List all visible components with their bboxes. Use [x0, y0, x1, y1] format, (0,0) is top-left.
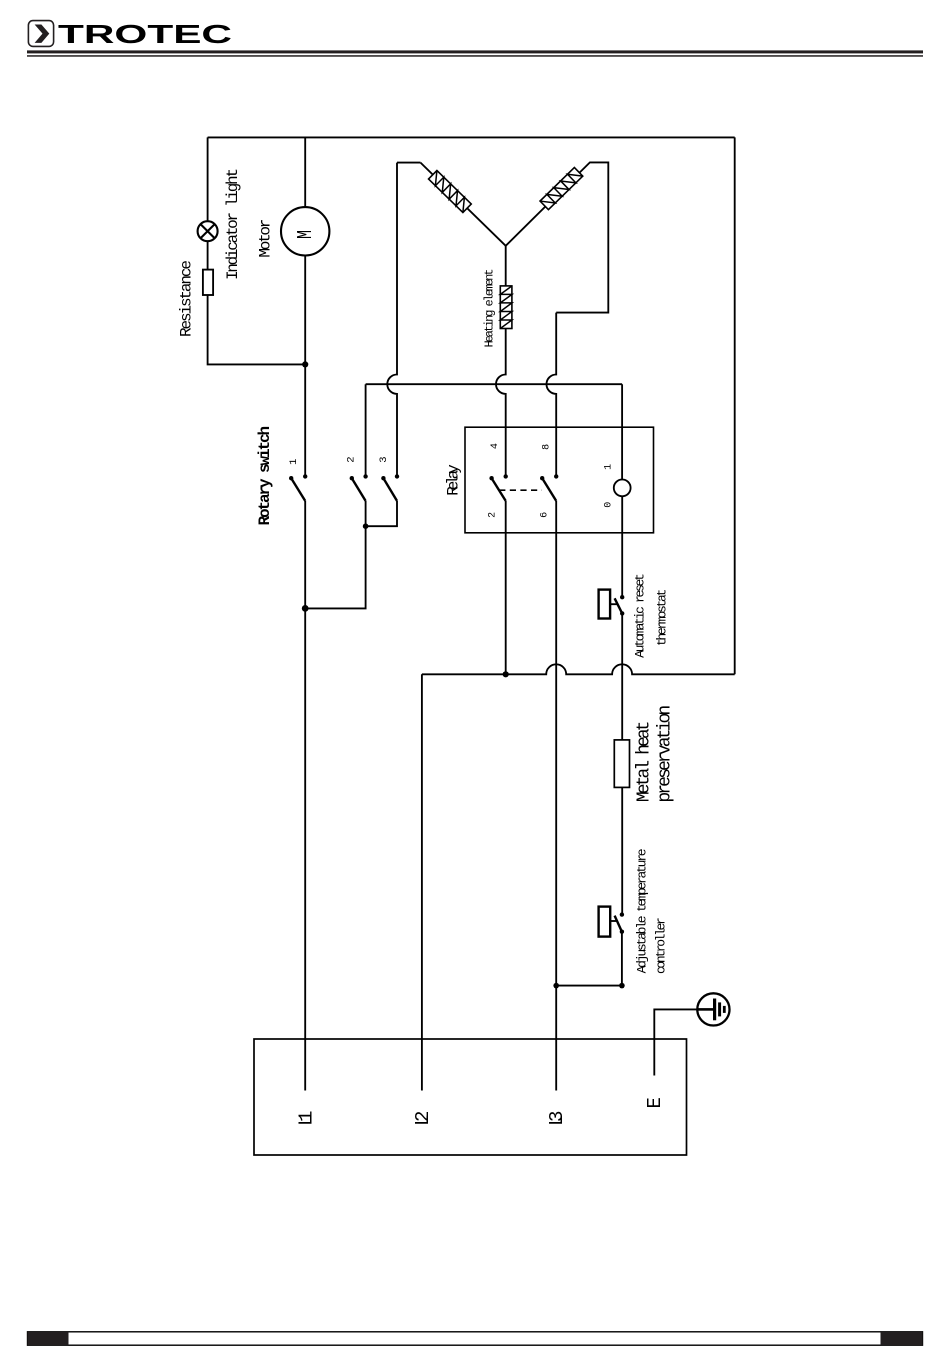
node: L1 junction [302, 605, 309, 612]
wire: relay contact B down to L3 [555, 501, 557, 1091]
rotary switch pole 1 blade [291, 478, 305, 501]
wire: bottom rail with hops over x=622 and x=556 [422, 664, 735, 674]
svg-text:L2: L2 [412, 1111, 434, 1127]
wire: switch2 blade to bottom link [365, 501, 367, 526]
svg-text:E: E [644, 1097, 666, 1108]
wire: lamp to resistor [207, 241, 209, 269]
svg-text:2: 2 [346, 456, 358, 462]
node: switch3 top contact [395, 474, 399, 478]
earth symbol bars [698, 999, 724, 1021]
node: thermostat top contact [620, 595, 624, 599]
svg-text:M: M [295, 230, 318, 239]
wire: right rail [734, 137, 736, 674]
relay contact A blade [492, 478, 506, 501]
svg-text:Metal heat: Metal heat [635, 721, 655, 803]
heating element middle coil [500, 286, 512, 329]
svg-text:controller: controller [654, 917, 669, 974]
wire: right heater drop with hop at y=384 [547, 313, 557, 477]
wire: switch2/3 bottom link [366, 501, 397, 526]
svg-text:Automatic reset: Automatic reset [632, 573, 647, 658]
heating element right coil [540, 168, 583, 210]
svg-text:L3: L3 [546, 1111, 568, 1127]
indicator lamp [198, 221, 218, 241]
rotary switch pole 3 blade [383, 478, 397, 501]
node: relay B top contact [554, 474, 558, 478]
wire: switch1 down to L1 [304, 501, 306, 1091]
svg-text:Resistance: Resistance [178, 260, 196, 337]
footer bar [28, 1332, 923, 1345]
adjustable temperature controller arm [610, 920, 617, 922]
node: relay A left contact [489, 476, 493, 480]
automatic reset thermostat body [599, 590, 611, 619]
node: relay A top contact [504, 474, 508, 478]
wire: hop-line left end down to switch 2 [365, 384, 367, 476]
adjustable temperature controller blade [615, 916, 622, 932]
svg-text:Heating element: Heating element [482, 269, 496, 348]
wire: left heater diagonal [421, 163, 506, 246]
svg-text:TROTEC: TROTEC [58, 21, 232, 49]
svg-text:Adjustable temperature: Adjustable temperature [634, 848, 649, 973]
wire: controller down to L3 node [556, 932, 622, 986]
motor U1 circle [281, 207, 329, 255]
svg-text:4: 4 [490, 443, 501, 449]
node: switch2/3 junction [363, 523, 369, 529]
wire: middle heater drop with hop at y=384 [496, 246, 506, 477]
heating element left coil [429, 170, 472, 212]
svg-text:Rotary switch: Rotary switch [256, 426, 274, 526]
resistor Resistance [203, 270, 213, 295]
svg-text:2: 2 [488, 512, 499, 518]
svg-text:L1: L1 [295, 1111, 317, 1127]
supply terminal box [254, 1039, 687, 1155]
wire: relay coil feed [621, 384, 623, 479]
wire: top rail [208, 136, 735, 138]
wire: earth link [654, 1009, 697, 1075]
node: switch1 top contact [303, 474, 307, 478]
automatic reset thermostat arm [610, 603, 617, 605]
automatic reset thermostat blade [615, 598, 623, 613]
relay coil circle [614, 480, 631, 497]
wire: resistor down to controller [621, 787, 623, 914]
relay box U2 [465, 427, 654, 533]
svg-text:6: 6 [540, 512, 551, 518]
node: resistance/motor junction [302, 361, 308, 367]
adjustable temperature controller body [599, 907, 611, 937]
wire: coil to thermostat [621, 496, 623, 597]
wire: relay contact A down to bottom rail node [505, 501, 507, 674]
wire: thermostat down to metal-heat resistor [621, 613, 623, 740]
svg-text:8: 8 [542, 444, 553, 450]
schematic labels (rotated) [178, 168, 676, 1126]
rotary switch pole 2 blade [352, 478, 366, 501]
svg-text:0: 0 [603, 502, 614, 508]
relay contact B blade [542, 478, 556, 501]
wire: motor stem from top rail [304, 137, 306, 207]
wire: left heater drop with hop at y=384 [387, 163, 397, 477]
svg-text:1: 1 [288, 459, 300, 465]
svg-text:Motor: Motor [257, 219, 275, 258]
svg-text:Indicator light: Indicator light [224, 168, 242, 280]
wire: resistor down and over to node [208, 295, 306, 364]
node: controller/L3 junction right [619, 983, 625, 989]
node: relay B left contact [540, 476, 544, 480]
earth terminal circle [697, 993, 729, 1025]
node: controller/L3 junction left [553, 983, 559, 989]
node: switch1 left contact [289, 476, 293, 480]
wire: L2 drop [421, 674, 423, 1090]
resistor Metal heat preservation [614, 740, 629, 788]
svg-text:3: 3 [378, 456, 390, 462]
label: Adjustable temperature controller [634, 848, 668, 974]
node: controller bottom contact [620, 930, 624, 934]
svg-text:thermostat: thermostat [654, 589, 669, 647]
wire: right heater diagonal [506, 162, 609, 312]
wire: hop-line y=384 [366, 383, 622, 385]
node: controller top contact [620, 912, 624, 916]
node: switch3 left contact [381, 476, 385, 480]
wire: link from node to switch2 bottom [305, 526, 365, 608]
junction and contact dots [289, 361, 625, 988]
header double rule [27, 50, 923, 56]
node: switch2 left contact [350, 476, 354, 480]
wire: left heater top link [397, 162, 421, 164]
svg-text:1: 1 [603, 464, 614, 470]
node: bottom rail junction [503, 671, 509, 677]
node: switch2 top contact [363, 474, 367, 478]
label: Automatic reset thermostat [632, 573, 669, 658]
relay linkage dashed [499, 489, 542, 491]
svg-text:preservation: preservation [656, 705, 676, 803]
svg-text:Relay: Relay [445, 464, 463, 496]
node: thermostat bottom contact [620, 611, 624, 615]
TROTEC logo box [28, 21, 53, 47]
main schematic strokes [198, 137, 735, 1155]
label: Metal heat preservation [635, 705, 676, 803]
wire: left rail to lamp [207, 137, 209, 221]
wire: motor bottom down to switch 1 [304, 256, 306, 477]
